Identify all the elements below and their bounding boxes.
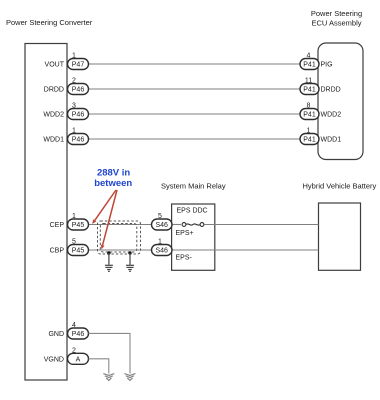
title: Power Steering ECU Assembly [311, 9, 362, 28]
svg-text:System Main Relay: System Main Relay [161, 182, 226, 191]
shield ground left [105, 253, 113, 271]
pin 1 S46 EPS- [152, 239, 173, 256]
wire VGND to ground [89, 359, 109, 374]
svg-text:Power Steering: Power Steering [311, 9, 362, 18]
shield dashed box inner [100, 224, 137, 253]
shield dashed box outer [98, 221, 141, 254]
shield ground right [126, 253, 134, 271]
red arrow to CBP wire [101, 190, 117, 250]
svg-text:S46: S46 [155, 248, 168, 255]
pin 11 P41 DRDD [300, 78, 341, 95]
svg-text:WDD1: WDD1 [321, 137, 342, 144]
svg-text:GND: GND [48, 331, 64, 338]
svg-text:P41: P41 [303, 87, 316, 94]
svg-text:P46: P46 [72, 87, 85, 94]
svg-text:P45: P45 [72, 222, 85, 229]
power steering ECU assembly box [318, 43, 363, 160]
pin 1 P45 CEP [50, 213, 89, 230]
svg-text:P47: P47 [72, 62, 85, 69]
pin 8 P41 WDD2 [300, 103, 341, 120]
wire GND to ground [89, 333, 131, 373]
svg-text:between: between [94, 178, 132, 189]
hybrid vehicle battery box [319, 203, 361, 270]
pin 4 P41 PIG [300, 53, 333, 70]
svg-text:A: A [76, 356, 81, 363]
svg-text:EPS+: EPS+ [176, 230, 194, 237]
svg-text:P46: P46 [72, 112, 85, 119]
svg-text:VOUT: VOUT [45, 62, 65, 69]
pin 1 P46 WDD1 [43, 128, 88, 145]
svg-text:WDD2: WDD2 [321, 112, 342, 119]
ground chevron VGND [103, 374, 114, 381]
svg-text:Hybrid Vehicle Battery: Hybrid Vehicle Battery [303, 182, 377, 191]
svg-text:EPS-: EPS- [176, 255, 193, 262]
svg-text:P46: P46 [72, 331, 85, 338]
relay contact symbol [182, 223, 204, 227]
pin 5 P45 CBP [50, 239, 89, 256]
svg-text:WDD2: WDD2 [43, 112, 64, 119]
svg-text:DRDD: DRDD [321, 87, 341, 94]
svg-text:DRDD: DRDD [44, 87, 64, 94]
svg-text:PIG: PIG [321, 62, 333, 69]
svg-text:S46: S46 [155, 222, 168, 229]
wire CEP to S46 [89, 224, 152, 226]
wire WDD1 to WDD1 [89, 138, 301, 140]
svg-text:Power Steering Converter: Power Steering Converter [6, 18, 93, 27]
wire DRDD to DRDD [89, 88, 301, 90]
wire EPS+ from S46 through relay to battery [172, 224, 319, 226]
wire CBP to S46 [89, 249, 152, 251]
wire WDD2 to WDD2 [89, 113, 301, 115]
wire EPS- from S46 through relay to battery [172, 249, 319, 251]
svg-text:CBP: CBP [50, 248, 65, 255]
svg-text:P46: P46 [72, 137, 85, 144]
svg-text:EPS DDC: EPS DDC [177, 207, 208, 214]
shield ground junction dot left [107, 251, 110, 254]
power steering converter box [25, 44, 67, 381]
svg-text:P41: P41 [303, 112, 316, 119]
pin 2 P46 DRDD [44, 78, 89, 95]
pin 5 S46 EPS+ [152, 213, 173, 230]
pin 2 A VGND [44, 347, 89, 364]
annotation 288V in between [94, 168, 132, 189]
pin 1 P41 WDD1 [300, 128, 341, 145]
pin 1 P47 VOUT [45, 53, 89, 70]
pin 3 P46 WDD2 [43, 103, 88, 120]
svg-text:WDD1: WDD1 [43, 137, 64, 144]
svg-text:P41: P41 [303, 137, 316, 144]
svg-text:P45: P45 [72, 248, 85, 255]
red arrow to CEP wire [92, 190, 116, 224]
ground chevron GND [124, 374, 135, 381]
svg-text:P41: P41 [303, 62, 316, 69]
svg-text:CEP: CEP [50, 222, 65, 229]
wire VOUT to PIG [89, 63, 301, 65]
svg-text:ECU Assembly: ECU Assembly [311, 19, 361, 28]
svg-text:VGND: VGND [44, 356, 64, 363]
pin 4 P46 GND [48, 322, 88, 339]
system main relay box [172, 204, 215, 270]
shield ground junction dot right [128, 251, 131, 254]
